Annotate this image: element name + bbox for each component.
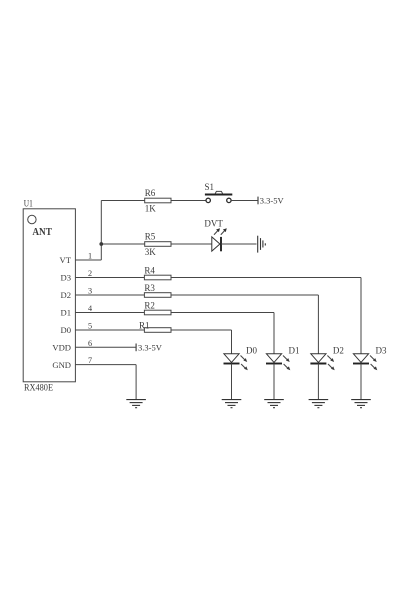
power symbol 3.3-5V (VDD) (135, 344, 137, 352)
svg-text:R2: R2 (144, 300, 155, 310)
DVT emission arrow 2 (221, 228, 227, 235)
svg-text:D3: D3 (376, 346, 387, 356)
LED D1 (266, 354, 282, 364)
wire D2 vertical drop (317, 295, 319, 354)
D0 emission arrow 1 (241, 356, 248, 363)
wire R5 row left (101, 243, 212, 245)
svg-text:2: 2 (88, 269, 92, 278)
ground symbol (D0) (222, 400, 242, 408)
svg-text:3.3-5V: 3.3-5V (260, 196, 285, 206)
wire pin1 VT stub (75, 259, 101, 261)
wire pin5 D0 row (75, 329, 231, 331)
ground symbol (D1) (264, 400, 284, 408)
diode DVT (212, 237, 221, 251)
ground symbol (D2) (309, 400, 329, 408)
resistor R4 (144, 275, 171, 280)
svg-text:D2: D2 (333, 346, 344, 356)
switch S1 (205, 191, 232, 202)
D2 emission arrow 1 (327, 356, 334, 363)
D0 emission arrow 2 (241, 364, 248, 370)
resistor R1 (144, 328, 171, 333)
resistor R2 (144, 310, 171, 315)
svg-text:7: 7 (88, 356, 92, 365)
wire D1 vertical drop (273, 313, 275, 354)
svg-text:D1: D1 (60, 308, 71, 318)
wire pin2 D3 row (75, 277, 361, 279)
D2 emission arrow 2 (328, 364, 335, 370)
ground symbol (D3) (351, 400, 371, 408)
resistor R3 (144, 293, 171, 298)
LED D3 (353, 354, 369, 364)
wire VT vertical riser (100, 201, 102, 261)
LED D2 (310, 354, 326, 364)
wire S1 to power tick (231, 200, 258, 202)
svg-text:D0: D0 (60, 325, 71, 335)
svg-text:3K: 3K (145, 247, 157, 257)
wire D0 vertical drop (231, 330, 233, 354)
svg-text:R6: R6 (145, 188, 156, 198)
D1 emission arrow 1 (283, 356, 290, 363)
wire D0 cathode to ground (231, 364, 233, 400)
svg-text:R1: R1 (139, 320, 150, 330)
svg-text:VT: VT (60, 255, 72, 265)
wire GND vertical drop (135, 365, 137, 400)
resistor R6 (145, 198, 171, 203)
wire pin7 GND stub (75, 364, 136, 366)
svg-text:4: 4 (88, 304, 92, 313)
svg-text:DVT: DVT (204, 219, 223, 229)
svg-text:VDD: VDD (52, 343, 71, 353)
wire R6 row left (101, 200, 206, 202)
svg-text:6: 6 (88, 339, 92, 348)
svg-text:R5: R5 (145, 231, 156, 241)
svg-text:S1: S1 (205, 182, 215, 192)
wire D2 cathode to ground (317, 364, 319, 400)
svg-text:5: 5 (88, 321, 92, 330)
DVT emission arrow 1 (214, 228, 220, 235)
svg-text:D0: D0 (246, 346, 257, 356)
svg-text:R4: R4 (144, 265, 155, 275)
svg-text:R3: R3 (144, 283, 155, 293)
power symbol 3.3-5V (top) (257, 197, 259, 205)
svg-text:ANT: ANT (32, 227, 52, 238)
wire D3 cathode to ground (360, 364, 362, 400)
svg-text:D3: D3 (60, 273, 71, 283)
svg-text:1: 1 (88, 251, 92, 260)
chip U1 body (23, 209, 75, 382)
wire pin4 D1 row (75, 312, 274, 314)
svg-text:3: 3 (88, 286, 92, 295)
wire pin6 VDD stub (75, 346, 135, 348)
D3 emission arrow 1 (370, 356, 377, 363)
sideways ground symbol (right of DVT) (258, 236, 266, 253)
svg-text:RX480E: RX480E (24, 382, 53, 392)
D3 emission arrow 2 (371, 364, 378, 370)
ground symbol (chip GND) (126, 400, 146, 408)
svg-text:GND: GND (52, 360, 71, 370)
svg-text:3.3-5V: 3.3-5V (138, 342, 163, 352)
junction dot at VT/R5 node (99, 242, 103, 246)
wire D1 cathode to ground (273, 364, 275, 400)
svg-text:1K: 1K (145, 204, 157, 214)
wire D3 vertical drop (360, 278, 362, 354)
resistor R5 (145, 242, 171, 247)
LED D0 (224, 354, 240, 364)
wire pin3 D2 row (75, 294, 318, 296)
svg-text:D2: D2 (60, 290, 71, 300)
wire DVT cathode to ground (221, 243, 257, 245)
svg-text:D1: D1 (289, 346, 300, 356)
D1 emission arrow 2 (284, 364, 291, 370)
svg-text:U1: U1 (24, 199, 33, 209)
